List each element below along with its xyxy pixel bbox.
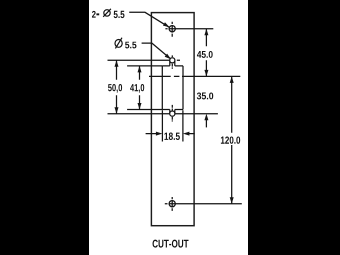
- caption CUT-OUT: [153, 240, 189, 248]
- extension line bottom outer (through bottom tab hole centre): [108, 113, 218, 115]
- dim 120.0 line: [230, 76, 234, 203]
- top tab hole: [170, 58, 175, 63]
- bottom mounting hole: [165, 197, 242, 211]
- leader 2-dia5.5: [129, 12, 170, 29]
- extension line slot bottom: [127, 109, 162, 111]
- dim 45.0 line: [204, 29, 208, 77]
- label dia5.5: [115, 38, 136, 49]
- dim 41,0 line: [138, 66, 142, 110]
- dim 45.0 text: [197, 51, 213, 58]
- horizontal centreline: [149, 75, 240, 77]
- left black bar: [0, 0, 89, 255]
- dim 41,0 text: [130, 84, 144, 93]
- dim 35.0 arrow: [204, 114, 208, 128]
- dim 35.0 text: [197, 92, 213, 99]
- top mounting hole: [165, 22, 213, 37]
- dim 50,0 text: [108, 84, 122, 93]
- panel outline: [151, 13, 194, 226]
- slot cut-out outline: [162, 61, 183, 113]
- dim 18.5 text: [164, 132, 179, 140]
- extension line slot top: [127, 65, 162, 67]
- dim 50,0 line: [115, 60, 119, 113]
- dim 18.5 arrows: [146, 132, 195, 136]
- extension line top outer (through top tab hole centre): [108, 59, 181, 61]
- label 2- dia5.5: [92, 9, 125, 18]
- right black bar: [248, 0, 340, 255]
- dim 18.5 extension lines: [162, 110, 183, 141]
- dim 120.0 text: [221, 136, 240, 143]
- leader dia5.5: [142, 43, 173, 61]
- bottom tab hole: [170, 111, 175, 116]
